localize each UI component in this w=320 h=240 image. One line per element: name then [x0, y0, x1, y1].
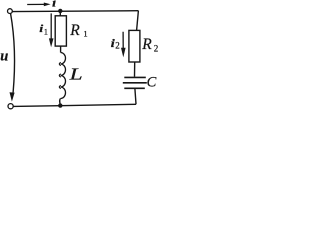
current arrow i1 head — [49, 38, 54, 47]
svg-text:C: C — [147, 75, 157, 91]
wire dot to R1 — [59, 12, 61, 16]
wire left vertical (voltage arrow shaft) — [11, 14, 15, 93]
svg-text:u: u — [0, 48, 8, 64]
terminal bottom-left — [8, 104, 13, 109]
capacitor C plate 2 — [123, 82, 147, 84]
inductor L curl 2 — [59, 74, 61, 77]
svg-text:R: R — [69, 22, 80, 39]
current arrow i2 shaft — [122, 32, 124, 48]
wire C to bottom corner — [135, 89, 136, 104]
current arrow i head — [44, 3, 51, 7]
wire top horizontal — [12, 10, 138, 13]
current arrow i1 shaft — [50, 13, 52, 39]
svg-text:R: R — [141, 36, 152, 53]
current arrow i2 head — [121, 48, 126, 58]
inductor L curl 1 — [59, 62, 61, 65]
resistor R1 — [55, 16, 66, 46]
wire bottom horizontal — [13, 104, 136, 106]
svg-text:1: 1 — [44, 27, 48, 36]
wire R2 to C — [134, 62, 136, 77]
node junction top — [58, 9, 62, 13]
wire R1 to L — [60, 46, 62, 52]
svg-text:L: L — [68, 66, 82, 84]
svg-text:1: 1 — [83, 29, 87, 39]
inductor L curl 3 — [59, 85, 61, 88]
capacitor C plate 1 — [124, 76, 146, 78]
terminal top-left — [7, 9, 12, 14]
capacitor C plate 3 — [124, 87, 145, 89]
current arrow i shaft — [27, 3, 44, 5]
svg-text:2: 2 — [154, 44, 158, 54]
voltage arrowhead u — [10, 92, 15, 101]
wire L to bottom — [59, 99, 62, 106]
svg-text:2: 2 — [115, 41, 120, 51]
resistor R2 — [129, 30, 140, 62]
inductor L — [61, 53, 66, 99]
node junction bottom — [58, 103, 62, 107]
svg-text:i: i — [52, 0, 56, 9]
wire top-right vertical — [137, 11, 139, 31]
